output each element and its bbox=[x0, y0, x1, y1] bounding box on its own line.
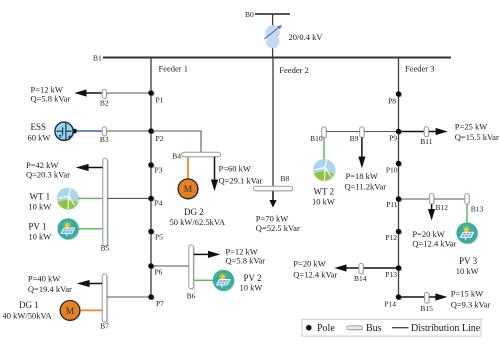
svg-text:Distribution Line: Distribution Line bbox=[411, 323, 481, 334]
svg-text:B11: B11 bbox=[420, 137, 432, 146]
svg-text:B0: B0 bbox=[245, 10, 254, 19]
svg-text:P10: P10 bbox=[386, 166, 398, 175]
svg-text:B9: B9 bbox=[350, 134, 359, 143]
svg-text:WT 1: WT 1 bbox=[30, 192, 51, 202]
svg-text:B3: B3 bbox=[100, 135, 109, 144]
svg-text:B13: B13 bbox=[471, 204, 484, 213]
svg-text:B15: B15 bbox=[420, 304, 433, 313]
svg-text:P4: P4 bbox=[155, 199, 163, 208]
svg-text:P3: P3 bbox=[155, 166, 163, 175]
svg-text:Q=5.8 kVar: Q=5.8 kVar bbox=[225, 256, 265, 266]
svg-text:P12: P12 bbox=[385, 233, 397, 242]
svg-text:B4: B4 bbox=[172, 152, 181, 161]
svg-text:Feeder 2: Feeder 2 bbox=[279, 65, 309, 75]
svg-text:Feeder 1: Feeder 1 bbox=[159, 64, 189, 74]
svg-text:PV 3: PV 3 bbox=[459, 256, 478, 266]
svg-text:P=40 kW: P=40 kW bbox=[28, 273, 60, 283]
svg-text:B7: B7 bbox=[100, 321, 109, 330]
svg-text:ESS: ESS bbox=[31, 122, 47, 132]
svg-text:Q=11.2kVar: Q=11.2kVar bbox=[345, 181, 387, 191]
svg-text:B12: B12 bbox=[436, 203, 449, 212]
svg-text:B14: B14 bbox=[354, 274, 367, 283]
svg-text:B1: B1 bbox=[93, 54, 102, 63]
svg-text:P7: P7 bbox=[156, 299, 164, 308]
svg-text:Q=9.3 kVar: Q=9.3 kVar bbox=[451, 299, 491, 309]
svg-text:Q=52.5 kVar: Q=52.5 kVar bbox=[256, 223, 300, 233]
svg-text:WT 2: WT 2 bbox=[314, 187, 335, 197]
svg-text:P=18 kW: P=18 kW bbox=[346, 171, 378, 181]
svg-text:P13: P13 bbox=[385, 270, 397, 279]
svg-text:Q=12.4 kVar: Q=12.4 kVar bbox=[293, 269, 337, 279]
svg-text:Q=5.8 kVar: Q=5.8 kVar bbox=[31, 93, 71, 103]
svg-text:P=60 kW: P=60 kW bbox=[219, 163, 251, 173]
svg-text:10 kW: 10 kW bbox=[28, 201, 51, 211]
svg-text:60 kW: 60 kW bbox=[28, 132, 51, 142]
svg-text:B10: B10 bbox=[310, 134, 323, 143]
svg-text:Pole: Pole bbox=[317, 323, 335, 334]
svg-text:B5: B5 bbox=[101, 243, 110, 252]
svg-text:P=25 kW: P=25 kW bbox=[455, 121, 487, 131]
svg-text:Q=20.3 kVar: Q=20.3 kVar bbox=[26, 170, 70, 180]
svg-text:P9: P9 bbox=[389, 134, 397, 143]
svg-text:Q=15.5 kVar: Q=15.5 kVar bbox=[455, 132, 499, 142]
svg-text:P1: P1 bbox=[156, 96, 164, 105]
svg-text:P=15 kW: P=15 kW bbox=[451, 288, 483, 298]
svg-text:PV 2: PV 2 bbox=[244, 273, 262, 283]
svg-text:P6: P6 bbox=[155, 268, 163, 277]
svg-text:P=20 kW: P=20 kW bbox=[293, 258, 325, 268]
svg-text:Q=19.4 kVar: Q=19.4 kVar bbox=[28, 284, 72, 294]
svg-text:PV 1: PV 1 bbox=[28, 222, 46, 232]
svg-text:10 kW: 10 kW bbox=[28, 232, 51, 242]
svg-text:50 kW/62.5kVA: 50 kW/62.5kVA bbox=[170, 217, 226, 227]
svg-text:P14: P14 bbox=[384, 300, 396, 309]
svg-text:DG 1: DG 1 bbox=[19, 300, 39, 310]
svg-text:P=42 kW: P=42 kW bbox=[26, 160, 58, 170]
svg-text:B8: B8 bbox=[281, 174, 290, 183]
svg-text:20/0.4 kV: 20/0.4 kV bbox=[289, 32, 324, 42]
svg-text:DG 2: DG 2 bbox=[184, 207, 204, 217]
svg-text:B6: B6 bbox=[187, 291, 196, 300]
svg-text:Bus: Bus bbox=[366, 323, 382, 334]
svg-text:Q=29.1 kVar: Q=29.1 kVar bbox=[219, 175, 263, 185]
svg-text:B2: B2 bbox=[100, 99, 109, 108]
svg-text:P11: P11 bbox=[386, 200, 398, 209]
svg-text:40 kW/50kVA: 40 kW/50kVA bbox=[3, 311, 53, 321]
svg-text:P2: P2 bbox=[156, 134, 164, 143]
svg-text:10 kW: 10 kW bbox=[240, 283, 263, 293]
svg-text:P5: P5 bbox=[155, 232, 163, 241]
svg-text:P8: P8 bbox=[388, 97, 396, 106]
svg-text:Q=12.4 kVar: Q=12.4 kVar bbox=[412, 238, 456, 248]
svg-text:10 kW: 10 kW bbox=[312, 197, 335, 207]
svg-text:Feeder 3: Feeder 3 bbox=[405, 64, 435, 74]
svg-text:10 kW: 10 kW bbox=[456, 266, 479, 276]
